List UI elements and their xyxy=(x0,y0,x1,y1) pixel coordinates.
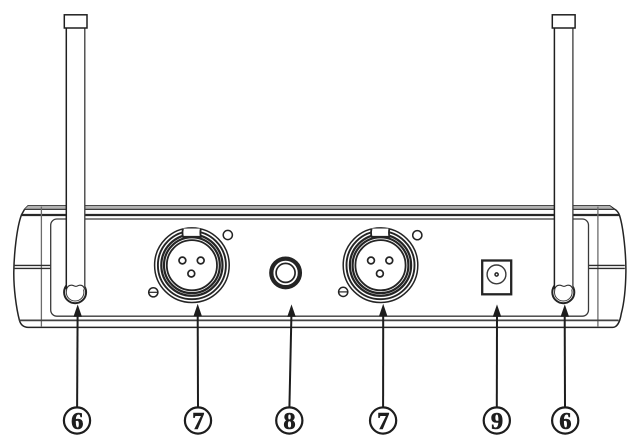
svg-text:8: 8 xyxy=(283,408,295,435)
right bevel line xyxy=(597,207,599,327)
right XLR mounting screw bottom-left (slotted) xyxy=(339,287,348,296)
right antenna rod xyxy=(554,27,573,290)
left antenna rod xyxy=(66,27,85,290)
DC power jack xyxy=(482,261,511,295)
top seam line xyxy=(21,214,619,216)
left XLR connector xyxy=(155,228,230,303)
phone jack socket xyxy=(271,259,300,288)
svg-text:7: 7 xyxy=(377,408,389,435)
top ridge grey band xyxy=(25,206,614,210)
callout arrow 6 left xyxy=(74,306,81,408)
callout arrow 6 right xyxy=(561,306,568,408)
recessed connector panel xyxy=(51,219,589,316)
left antenna top cap xyxy=(64,15,87,28)
svg-text:9: 9 xyxy=(491,408,503,435)
callout arrow 9 xyxy=(493,306,500,408)
svg-text:6: 6 xyxy=(71,408,83,435)
bottom ridge line xyxy=(19,319,618,321)
right antenna top cap xyxy=(552,15,575,28)
callout circle 7 left xyxy=(185,407,211,435)
receiver body outline xyxy=(14,206,626,328)
callout circle 8 xyxy=(276,407,302,435)
right XLR mounting screw top-right xyxy=(413,231,422,240)
left XLR mounting screw top-right xyxy=(223,230,232,239)
right XLR connector xyxy=(343,228,418,303)
left XLR mounting screw bottom-left (slotted) xyxy=(149,288,158,297)
left antenna base xyxy=(64,281,86,303)
left bevel line xyxy=(40,207,42,327)
callout arrow 7 right xyxy=(380,305,387,408)
right side seam lines xyxy=(589,265,625,268)
svg-text:6: 6 xyxy=(559,408,571,435)
callout circle 6 right xyxy=(552,407,578,435)
callout circle 9 xyxy=(484,407,510,435)
callout arrow 7 left xyxy=(194,305,201,408)
left side seam lines xyxy=(15,265,51,268)
svg-text:7: 7 xyxy=(192,408,204,435)
right antenna base xyxy=(552,281,574,303)
callout circle 6 left xyxy=(64,407,90,435)
callout arrow 8 xyxy=(288,306,295,408)
callout circle 7 right xyxy=(370,407,396,435)
